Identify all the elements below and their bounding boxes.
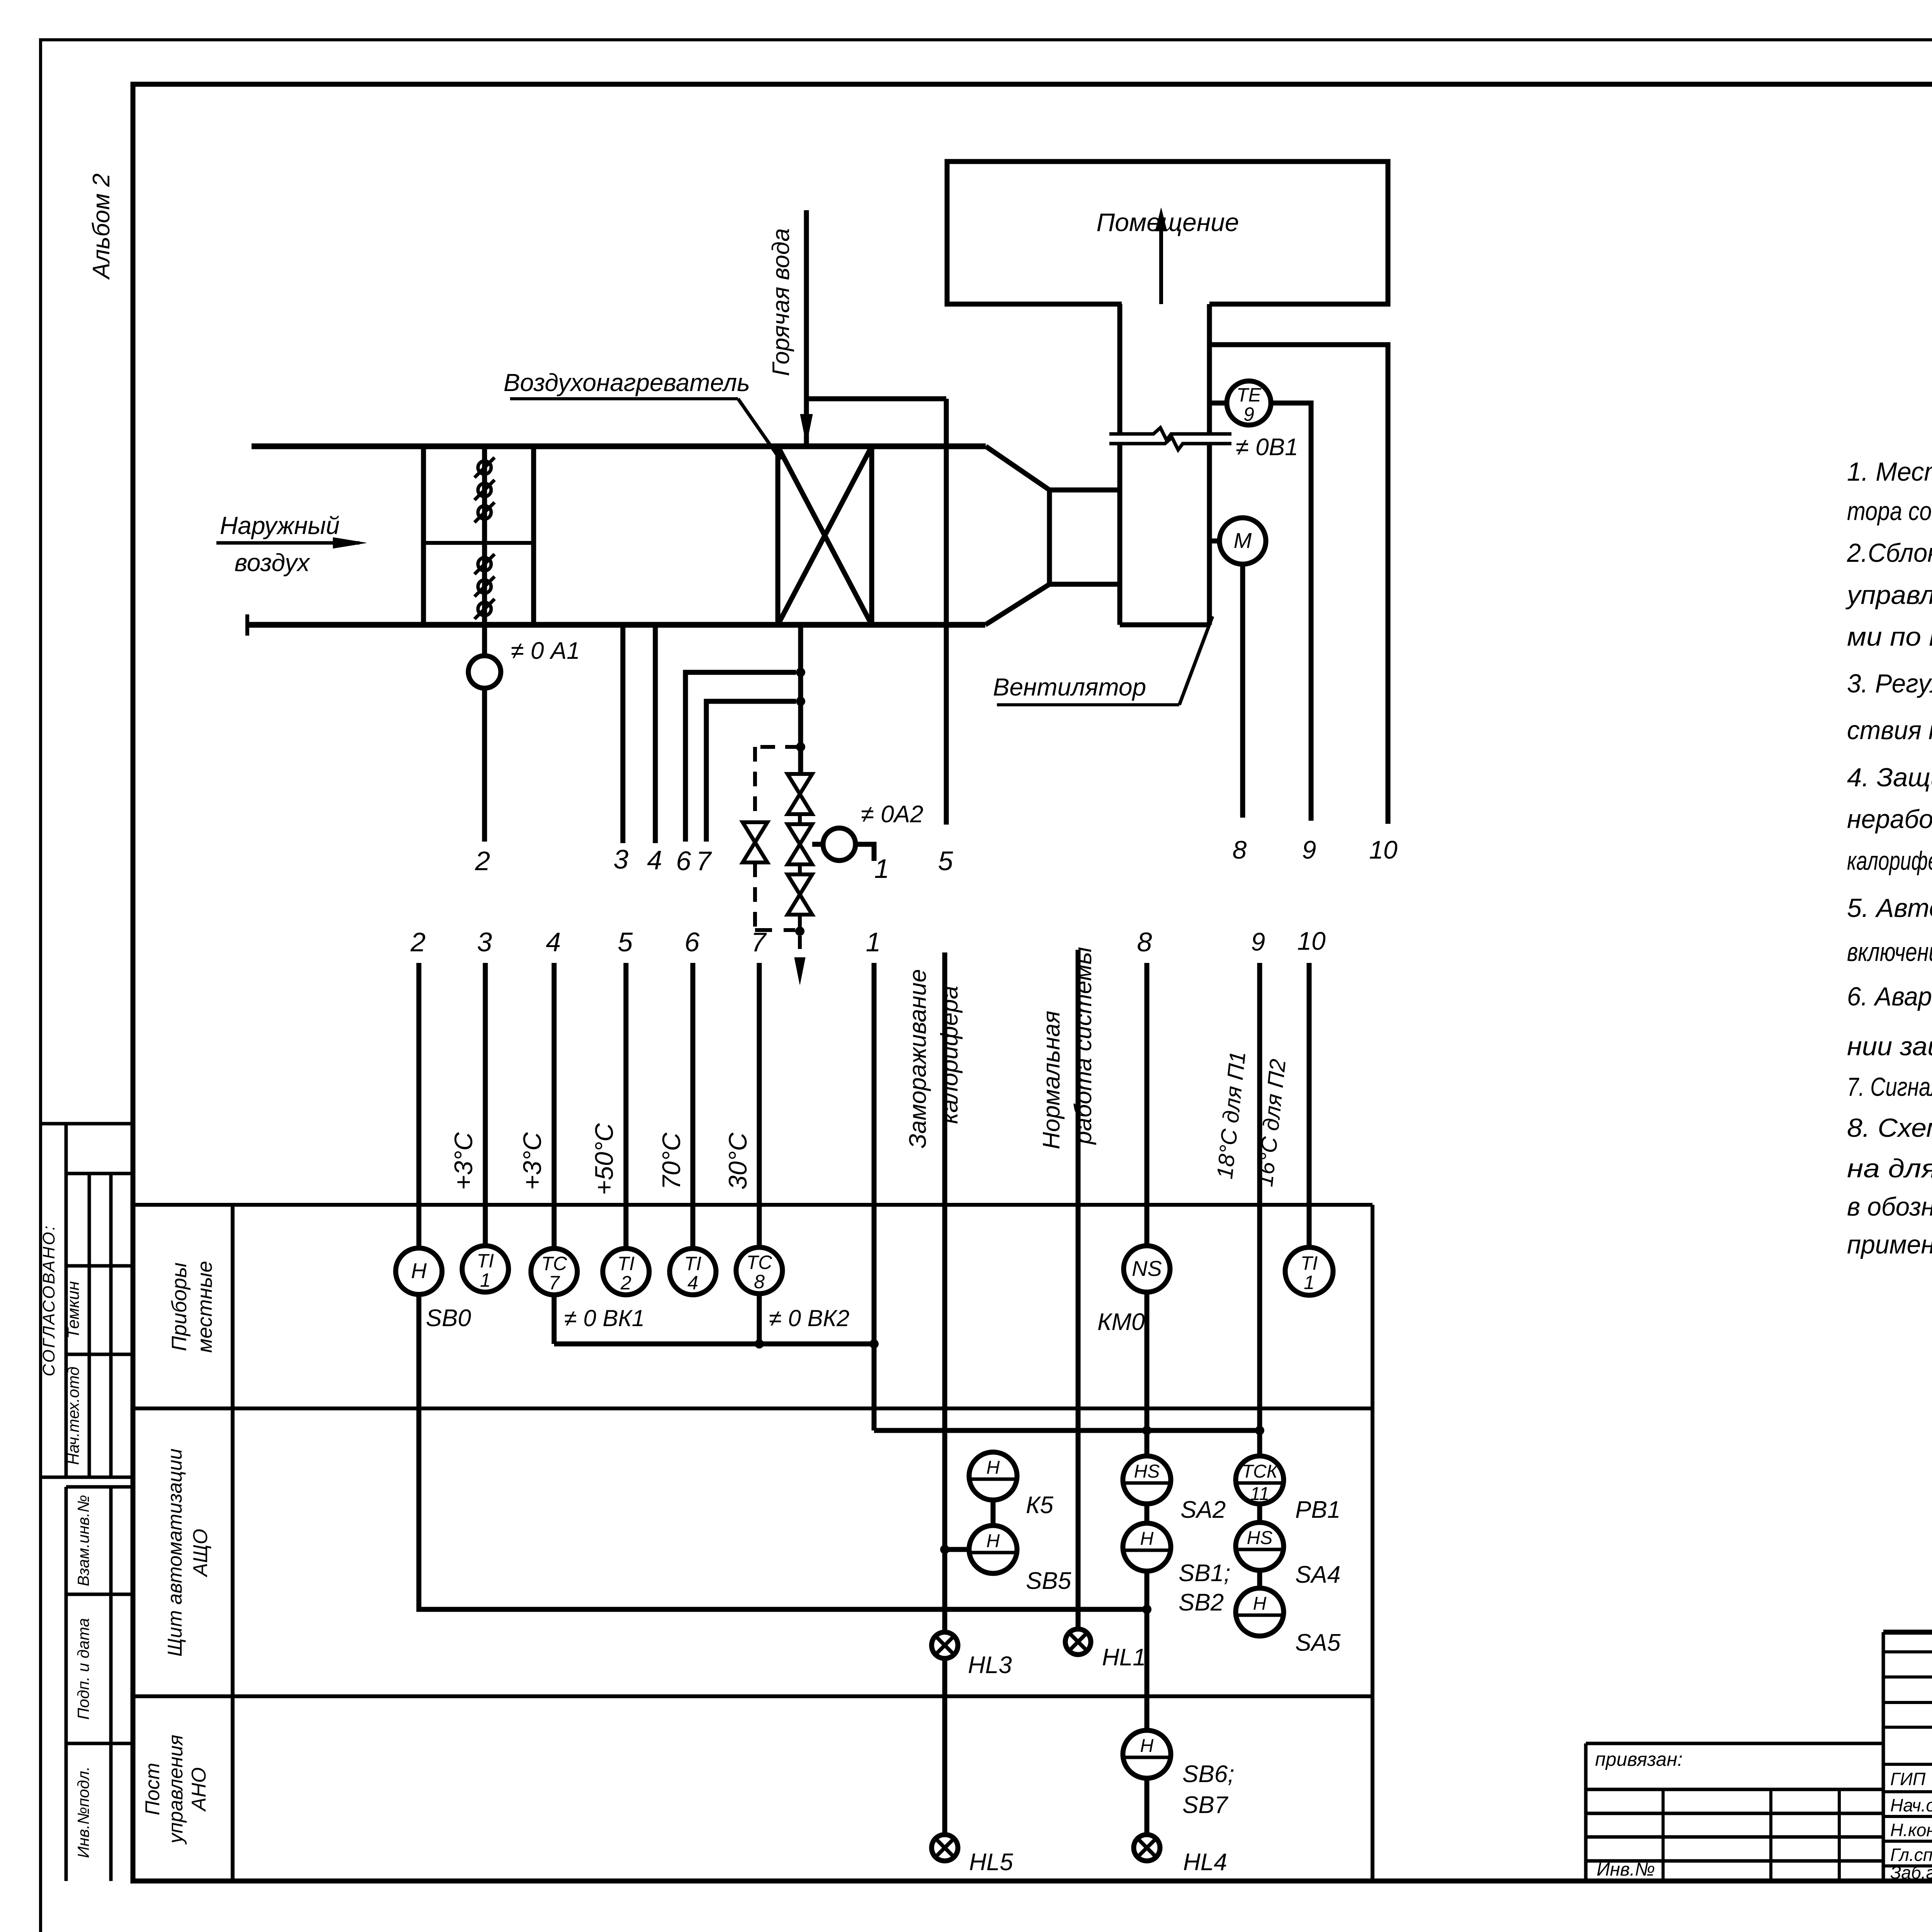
svg-text:Помещение: Помещение bbox=[1096, 208, 1239, 236]
svg-text:2: 2 bbox=[410, 927, 426, 957]
junction bypass bottom bbox=[795, 927, 804, 936]
svg-text:РВ1: РВ1 bbox=[1295, 1497, 1340, 1523]
hot water pipe bbox=[804, 210, 809, 444]
instrument TI-1 left bbox=[462, 1246, 509, 1292]
table label column divider bbox=[231, 1205, 235, 1881]
louver blade 6 bbox=[478, 602, 491, 616]
damper actuator OA1 bbox=[468, 656, 501, 688]
svg-text:8. Схема выполнена для прит: 8. Схема выполнена для приточной системы… bbox=[1847, 1113, 1932, 1143]
title block small table bbox=[1882, 1632, 1885, 1881]
motor M bbox=[1219, 518, 1266, 564]
svg-text:SА2: SА2 bbox=[1180, 1497, 1226, 1523]
instrument TC-7 bbox=[531, 1248, 577, 1295]
svg-text:7: 7 bbox=[696, 846, 713, 876]
svg-text:АЩО: АЩО bbox=[189, 1529, 212, 1577]
pipe between V1 V2 bbox=[798, 814, 802, 824]
wire line 7 (panel side) bbox=[757, 963, 762, 1247]
bypass valve bbox=[743, 822, 767, 862]
wire TC8 drop bbox=[757, 1294, 762, 1344]
damper actuator stem upper bbox=[482, 625, 487, 656]
louver blade 4 bbox=[478, 558, 491, 571]
valve V3 bbox=[787, 874, 812, 915]
link SA2-SB1 bbox=[1145, 1504, 1150, 1523]
svg-text:8: 8 bbox=[754, 1271, 765, 1293]
wire stub 7 bbox=[706, 701, 796, 842]
svg-text:5: 5 bbox=[618, 927, 633, 957]
svg-text:SА5: SА5 bbox=[1295, 1629, 1341, 1656]
svg-text:HL1: HL1 bbox=[1102, 1644, 1146, 1671]
outside air arrow bbox=[216, 541, 359, 545]
svg-text:ГИП: ГИП bbox=[1890, 1769, 1926, 1789]
instrument TE9 bbox=[1227, 381, 1271, 425]
junction SA bus / line 9 bbox=[1255, 1426, 1264, 1435]
svg-text:NS: NS bbox=[1132, 1256, 1162, 1281]
valve V1 bbox=[787, 774, 812, 814]
svg-text:+50°C: +50°C bbox=[590, 1123, 618, 1195]
wire loop to line 10 bbox=[1209, 345, 1388, 824]
filter section left wall bbox=[421, 446, 426, 625]
junction bypass top bbox=[796, 742, 805, 752]
svg-text:Замораживание: Замораживание bbox=[905, 969, 931, 1148]
filter section mid divider bbox=[424, 541, 534, 545]
link K5-SB5 bbox=[991, 1500, 996, 1526]
svg-text:НS: НS bbox=[1134, 1461, 1160, 1482]
instrument TI-4 bbox=[670, 1248, 716, 1295]
wire line 10 (panel side) bbox=[1307, 963, 1312, 1247]
svg-text:неработающей системе и авто: неработающей системе и автоматический 3ˣ… bbox=[1847, 804, 1932, 834]
heater diagonal 1 bbox=[778, 446, 872, 625]
svg-text:ТI: ТI bbox=[1301, 1252, 1318, 1274]
wire SB6 to HL4 bbox=[1145, 1778, 1150, 1835]
svg-text:+3°C: +3°C bbox=[449, 1132, 478, 1190]
room box Помещение bbox=[947, 162, 1388, 304]
valve V2 bbox=[787, 824, 812, 864]
svg-text:применяемости лист 4: применяемости лист 4 bbox=[1847, 1230, 1932, 1259]
svg-text:Воздухонагреватель: Воздухонагреватель bbox=[503, 369, 750, 396]
svg-text:70°C: 70°C bbox=[657, 1132, 685, 1190]
bypass dashed left lower bbox=[753, 862, 757, 930]
junction VK2 on bus bbox=[755, 1339, 764, 1349]
valve actuator OA2 bbox=[823, 828, 855, 861]
lamp HL5 bbox=[932, 1835, 1013, 1876]
fan label leader bbox=[1179, 616, 1213, 705]
fan inlet cone top diagonal bbox=[986, 446, 1049, 490]
svg-text:Щит автоматизации: Щит автоматизации bbox=[164, 1449, 186, 1657]
svg-text:4: 4 bbox=[647, 845, 662, 875]
fan casing right wall bbox=[1207, 304, 1212, 434]
svg-text:калорифера перед включением ве: калорифера перед включением вентилятора. bbox=[1847, 846, 1932, 876]
svg-text:управление клапаном наружног: управление клапаном наружного воздуха и … bbox=[1845, 580, 1932, 610]
svg-text:Н: Н bbox=[1140, 1736, 1154, 1756]
svg-text:6: 6 bbox=[676, 846, 691, 876]
filter section right wall bbox=[531, 446, 536, 625]
svg-text:Взам.инв.№: Взам.инв.№ bbox=[74, 1495, 92, 1586]
fan inlet cone bottom diagonal bbox=[985, 584, 1049, 625]
heater diagonal 2 bbox=[778, 446, 872, 625]
heater label leader bbox=[738, 399, 781, 460]
svg-text:ТЕ: ТЕ bbox=[1236, 384, 1262, 406]
svg-text:5: 5 bbox=[938, 846, 954, 876]
svg-text:ТС: ТС bbox=[747, 1252, 773, 1273]
svg-text:3: 3 bbox=[477, 927, 492, 957]
wire line 2 (panel side) bbox=[417, 963, 422, 1248]
svg-text:SВ0: SВ0 bbox=[426, 1305, 471, 1332]
fan casing bottom bbox=[1120, 622, 1209, 628]
table divider row2/row3 bbox=[134, 1694, 1372, 1698]
control valve actuator OA2 link bbox=[812, 842, 823, 847]
junction on return pipe (line 6) bbox=[796, 668, 805, 677]
svg-text:7: 7 bbox=[549, 1272, 560, 1294]
svg-text:ТI: ТI bbox=[684, 1253, 702, 1274]
junction bus to line 1 bbox=[869, 1339, 879, 1349]
bypass dashed top bbox=[755, 745, 800, 749]
svg-text:≠ 0В1: ≠ 0В1 bbox=[1236, 434, 1298, 461]
svg-text:Н.контр.: Н.контр. bbox=[1890, 1820, 1932, 1840]
svg-text:Наружный: Наружный bbox=[220, 512, 340, 539]
svg-text:Н: Н bbox=[986, 1458, 1000, 1478]
svg-text:калорифера: калорифера bbox=[936, 986, 963, 1124]
link TCK-SA4 bbox=[1257, 1504, 1262, 1522]
svg-text:Заб.гр.: Заб.гр. bbox=[1890, 1862, 1932, 1883]
switch HS SA4 bbox=[1236, 1522, 1284, 1570]
svg-text:ствия на исполнительный механ: ствия на исполнительный механизм клапана… bbox=[1847, 716, 1932, 745]
svg-text:привязан:: привязан: bbox=[1595, 1748, 1683, 1770]
svg-text:Гл.спец.: Гл.спец. bbox=[1890, 1845, 1932, 1865]
instrument TC-8 bbox=[736, 1247, 782, 1294]
louver blade 3 bbox=[478, 506, 491, 519]
svg-text:Нач.тех.отд: Нач.тех.отд bbox=[64, 1367, 82, 1465]
svg-text:8: 8 bbox=[1137, 927, 1152, 957]
svg-text:Н: Н bbox=[1253, 1594, 1267, 1614]
svg-text:10: 10 bbox=[1369, 835, 1398, 864]
svg-text:4: 4 bbox=[687, 1272, 698, 1294]
instrument TI-2 bbox=[603, 1248, 649, 1295]
table top border bbox=[134, 1203, 1372, 1207]
margin block upper (approvals) bbox=[41, 1122, 133, 1126]
svg-text:≠ 0 А1: ≠ 0 А1 bbox=[511, 638, 580, 664]
svg-text:Н: Н bbox=[986, 1531, 1000, 1551]
svg-text:2: 2 bbox=[620, 1272, 631, 1294]
svg-text:HL4: HL4 bbox=[1183, 1849, 1227, 1876]
svg-text:6: 6 bbox=[685, 927, 700, 957]
svg-text:Приборы: Приборы bbox=[168, 1262, 191, 1351]
svg-text:11: 11 bbox=[1250, 1484, 1269, 1504]
svg-text:нии защиты от замораживания.: нии защиты от замораживания. bbox=[1847, 1032, 1932, 1061]
lamp HL3 bbox=[932, 1632, 1012, 1679]
duct break line lower bbox=[1109, 437, 1231, 450]
wire SB1 down through lamp bus bbox=[1145, 1571, 1150, 1730]
wire HL3 to HL5 bbox=[942, 1658, 947, 1835]
svg-text:7: 7 bbox=[751, 927, 767, 957]
svg-text:+3°C: +3°C bbox=[518, 1132, 546, 1190]
wire NS down to SA bus bbox=[1145, 1292, 1150, 1456]
wire line 9 (panel side) bbox=[1257, 963, 1262, 1456]
wire TC7 drop bbox=[552, 1295, 557, 1344]
svg-text:управления: управления bbox=[165, 1735, 187, 1844]
fan throat bottom bbox=[1049, 582, 1120, 587]
hot water arrowhead bbox=[800, 414, 813, 444]
lamp HL4 bbox=[1134, 1835, 1227, 1876]
svg-text:местные: местные bbox=[193, 1261, 216, 1353]
svg-text:9: 9 bbox=[1243, 403, 1254, 425]
svg-text:Альбом 2: Альбом 2 bbox=[88, 173, 115, 281]
svg-text:1: 1 bbox=[874, 854, 889, 884]
svg-text:Подп. и дата: Подп. и дата bbox=[74, 1618, 92, 1720]
fan casing left wall bbox=[1117, 304, 1122, 434]
svg-text:НS: НS bbox=[1247, 1528, 1273, 1548]
svg-text:SВ5: SВ5 bbox=[1026, 1568, 1071, 1594]
svg-text:HL3: HL3 bbox=[968, 1652, 1012, 1679]
svg-text:≠ 0 ВК1: ≠ 0 ВК1 bbox=[564, 1305, 645, 1331]
table divider row1/row2 bbox=[134, 1406, 1372, 1410]
wire TE9 to line 9 bbox=[1271, 403, 1311, 821]
svg-text:10: 10 bbox=[1297, 927, 1326, 955]
svg-text:воздух: воздух bbox=[235, 549, 311, 577]
svg-text:на для приточной системы П: на для приточной системы П2 с указанием … bbox=[1847, 1154, 1932, 1183]
supply air arrow into room bbox=[1159, 222, 1163, 304]
instrument NS bbox=[1124, 1246, 1170, 1292]
duct break line upper bbox=[1109, 428, 1231, 440]
svg-text:ТС: ТС bbox=[541, 1253, 568, 1274]
button H SB5 bbox=[969, 1526, 1017, 1573]
svg-text:включении вентилятора.: включении вентилятора. bbox=[1847, 937, 1932, 967]
svg-text:Инв.№подл.: Инв.№подл. bbox=[74, 1766, 92, 1858]
wire line 1 (panel side) bbox=[872, 963, 877, 1430]
lamp bus bbox=[419, 1294, 1147, 1609]
switch TCK-11 PB1 bbox=[1236, 1456, 1284, 1504]
lamp HL1 bbox=[1065, 1629, 1146, 1671]
svg-text:9: 9 bbox=[1251, 927, 1265, 956]
svg-text:Нормальная: Нормальная bbox=[1038, 1011, 1065, 1150]
svg-text:1. Местное управление электр: 1. Местное управление электродвигателем … bbox=[1847, 457, 1932, 486]
svg-text:SА4: SА4 bbox=[1295, 1561, 1340, 1588]
junction on Замораживание line bbox=[940, 1545, 949, 1554]
wire SB5 jog bbox=[945, 1547, 969, 1552]
svg-text:30°C: 30°C bbox=[723, 1132, 752, 1190]
svg-text:4: 4 bbox=[546, 927, 561, 957]
svg-text:SВ6;: SВ6; bbox=[1182, 1761, 1234, 1787]
instrument H SB0 bbox=[396, 1248, 442, 1294]
svg-text:SВ2: SВ2 bbox=[1179, 1589, 1224, 1616]
fan throat top bbox=[1049, 488, 1120, 493]
svg-text:ТI: ТI bbox=[617, 1253, 635, 1274]
pipe between V2 V3 bbox=[798, 864, 802, 874]
svg-text:Н: Н bbox=[411, 1259, 427, 1283]
svg-text:в обозначении аппаратов и п: в обозначении аппаратов и приборов согла… bbox=[1847, 1192, 1932, 1221]
svg-text:М: М bbox=[1234, 528, 1252, 553]
svg-text:Пост: Пост bbox=[141, 1763, 164, 1815]
wire branch to line 5 bbox=[806, 396, 946, 401]
svg-text:Темкин: Темкин bbox=[64, 1281, 83, 1338]
duct bottom wall bbox=[247, 622, 985, 628]
svg-text:Вентилятор: Вентилятор bbox=[993, 673, 1146, 701]
drain dashed arrow bbox=[798, 936, 802, 968]
svg-text:Горячая вода: Горячая вода bbox=[768, 228, 794, 376]
sensor TE9 stub bbox=[1209, 401, 1227, 406]
svg-text:SВ7: SВ7 bbox=[1182, 1792, 1229, 1818]
wire line 3 (panel side) bbox=[483, 963, 488, 1246]
duct top wall bbox=[252, 444, 986, 449]
wire line 4 (panel side) bbox=[552, 963, 557, 1248]
привязан block bbox=[1586, 1742, 1883, 1745]
heater box left wall bbox=[776, 446, 781, 625]
damper louver shaft bbox=[482, 446, 487, 625]
svg-text:работа системы: работа системы bbox=[1070, 947, 1097, 1145]
svg-text:4. Защита калорифера от за: 4. Защита калорифера от замораживания пр… bbox=[1847, 763, 1932, 792]
pipe below V3 dashed bbox=[798, 915, 802, 927]
bypass dashed bottom bbox=[755, 928, 795, 932]
svg-text:КМ0: КМ0 bbox=[1097, 1309, 1145, 1335]
svg-text:HL5: HL5 bbox=[969, 1849, 1013, 1876]
heater return pipe bbox=[798, 625, 803, 775]
wire stub 3 bbox=[621, 625, 626, 843]
svg-text:СОГЛАСОВАНО:: СОГЛАСОВАНО: bbox=[39, 1224, 58, 1376]
wire line 5 (panel side) bbox=[624, 963, 629, 1248]
svg-text:3. Регулирование температуры: 3. Регулирование температуры приточного … bbox=[1847, 669, 1932, 698]
duct bottom left end tick bbox=[245, 614, 249, 636]
wire stub 2 (from OA1) bbox=[482, 688, 487, 842]
relay H K5 bbox=[969, 1452, 1017, 1500]
svg-text:ТI: ТI bbox=[477, 1250, 494, 1272]
svg-text:1: 1 bbox=[1304, 1272, 1315, 1293]
heater box right wall bbox=[869, 446, 874, 625]
svg-text:6. Аварийное отключение прит: 6. Аварийное отключение приточного венти… bbox=[1847, 982, 1932, 1011]
switch H SA5 bbox=[1236, 1588, 1284, 1636]
svg-text:≠ 0 ВК2: ≠ 0 ВК2 bbox=[769, 1305, 849, 1331]
capillary bus VK1/VK2 bbox=[554, 1342, 874, 1347]
wire line 8 (panel side) bbox=[1145, 963, 1150, 1246]
svg-text:5. Автоматическое подключени: 5. Автоматическое подключение системы ре… bbox=[1847, 893, 1932, 923]
svg-text:SВ1;: SВ1; bbox=[1179, 1560, 1230, 1587]
svg-text:9: 9 bbox=[1302, 835, 1316, 864]
svg-text:1: 1 bbox=[480, 1269, 491, 1291]
wire line 8 (from motor) bbox=[1240, 564, 1245, 818]
svg-text:≠ 0А2: ≠ 0А2 bbox=[861, 801, 923, 828]
louver blade 1 bbox=[478, 461, 491, 474]
svg-text:2.Сблокированное с электродви: 2.Сблокированное с электродвигателем при… bbox=[1847, 538, 1932, 568]
wire line 6 (panel side) bbox=[690, 963, 696, 1248]
wire stub 1 bbox=[855, 844, 874, 861]
svg-text:7. Сигнализация нормальной раб: 7. Сигнализация нормальной работы приточ… bbox=[1847, 1072, 1932, 1102]
bypass dashed left upper bbox=[753, 747, 757, 822]
link SA4-SA5 bbox=[1257, 1570, 1262, 1588]
svg-text:тора со щита автоматизации и д: тора со щита автоматизации и дистанционн… bbox=[1847, 497, 1932, 526]
svg-text:АНО: АНО bbox=[188, 1767, 210, 1812]
svg-text:8: 8 bbox=[1233, 835, 1247, 864]
louver blade 5 bbox=[478, 580, 491, 593]
svg-text:Нач.отд.: Нач.отд. bbox=[1890, 1795, 1932, 1815]
louver blade 2 bbox=[478, 483, 491, 497]
margin block lower (inventory) bbox=[66, 1485, 133, 1489]
svg-text:3: 3 bbox=[614, 844, 629, 874]
svg-text:К5: К5 bbox=[1026, 1492, 1054, 1519]
junction lamp bus / SB column bbox=[1142, 1605, 1151, 1614]
svg-text:1: 1 bbox=[866, 927, 881, 957]
switch HS SA2 bbox=[1123, 1456, 1171, 1504]
motor stub bbox=[1209, 539, 1219, 544]
junction SA bus / NS column bbox=[1142, 1426, 1151, 1435]
wire stub 6 bbox=[685, 672, 796, 842]
svg-text:2: 2 bbox=[475, 846, 490, 876]
svg-text:ми по месту.: ми по месту. bbox=[1847, 622, 1932, 651]
wire stub 4 bbox=[653, 625, 658, 843]
junction on return pipe (line 7) bbox=[796, 697, 805, 706]
title block top edge bbox=[1883, 1630, 1932, 1635]
fan inlet cone end bbox=[1047, 490, 1052, 584]
svg-text:Инв.№: Инв.№ bbox=[1597, 1859, 1655, 1880]
wire Нормальная работа системы bbox=[1076, 950, 1081, 1629]
button H SB6 SB7 bbox=[1123, 1730, 1171, 1778]
wire Замораживание калорифера bbox=[942, 952, 947, 1632]
instrument TI-1 right bbox=[1285, 1247, 1333, 1295]
svg-text:Н: Н bbox=[1140, 1529, 1154, 1549]
wire line 5 vertical bbox=[944, 399, 949, 825]
table right border bbox=[1371, 1205, 1374, 1881]
button H SB1 SB2 bbox=[1123, 1523, 1171, 1571]
svg-text:ТСК: ТСК bbox=[1242, 1461, 1279, 1482]
bus to panel switches bbox=[874, 1428, 1260, 1433]
